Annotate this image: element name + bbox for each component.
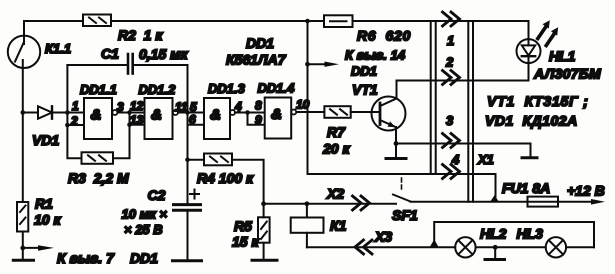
junction triangle +12 bbox=[490, 195, 499, 201]
svg-text:X1: X1 bbox=[477, 152, 494, 167]
svg-text:1: 1 bbox=[72, 99, 79, 113]
node junction top rail bbox=[305, 19, 310, 24]
svg-text:1: 1 bbox=[447, 33, 454, 48]
relay coil K1 bbox=[291, 204, 324, 248]
svg-text:С2: С2 bbox=[148, 187, 166, 203]
svg-text:К1: К1 bbox=[330, 218, 347, 234]
svg-text:R2 1 к: R2 1 к bbox=[118, 27, 163, 43]
wire collector row2 to HL1 bbox=[397, 80, 529, 82]
svg-text:4: 4 bbox=[234, 100, 242, 114]
node DD1.1 input 2 bbox=[65, 123, 70, 128]
svg-text:HL2: HL2 bbox=[480, 226, 507, 242]
wire DD1.2 out to DD1.3 in bbox=[178, 112, 204, 114]
connector X1 right pair bbox=[468, 21, 473, 202]
svg-text:20 к: 20 к bbox=[322, 141, 350, 157]
wire DD1.3 out to DD1.4 in bbox=[235, 112, 265, 114]
svg-text:VD1: VD1 bbox=[32, 132, 59, 148]
node DD1.4 in tie bbox=[245, 110, 250, 115]
svg-text:DD1.4: DD1.4 bbox=[258, 81, 296, 96]
svg-text:12: 12 bbox=[130, 99, 144, 113]
chevron contact row2 bbox=[443, 71, 460, 85]
wire C1 left branch down to gate input bbox=[66, 65, 68, 125]
resistor R1 bbox=[17, 202, 28, 232]
ground R1 bbox=[13, 259, 33, 262]
svg-text:2: 2 bbox=[70, 114, 78, 128]
ground emitter bbox=[386, 144, 406, 159]
node DD1.3 input bbox=[185, 110, 190, 115]
wire R2 to supply rail and R6 bbox=[111, 20, 324, 22]
svg-text:X3: X3 bbox=[374, 229, 392, 245]
svg-text:6: 6 bbox=[189, 113, 196, 127]
wire R1 to ground bbox=[22, 232, 24, 260]
resistor R7 bbox=[324, 106, 350, 118]
svg-text:13: 13 bbox=[130, 113, 144, 127]
svg-text:2: 2 bbox=[445, 55, 454, 70]
LED HL1 bbox=[517, 21, 541, 81]
wire DD1.3 input 6 bbox=[188, 124, 205, 126]
connector X1 left pair bbox=[431, 21, 436, 174]
resistor R6 bbox=[324, 15, 353, 27]
svg-text:DD1.2: DD1.2 bbox=[139, 82, 177, 97]
svg-text:+12 В: +12 В bbox=[567, 183, 605, 199]
svg-text:3: 3 bbox=[446, 113, 454, 128]
svg-text:0,15 мк: 0,15 мк bbox=[139, 46, 188, 62]
ground row3 bbox=[522, 156, 537, 159]
node K1 tap bbox=[305, 201, 310, 206]
wire DD1.4 tie 8 9 bbox=[248, 113, 265, 125]
ground C2 bbox=[173, 259, 202, 262]
svg-text:X2: X2 bbox=[326, 186, 344, 202]
wire SF1 to +12V bbox=[411, 201, 593, 203]
chevron contact row4 bbox=[443, 165, 460, 179]
transistor VT1 bbox=[372, 81, 406, 144]
HL1 emission arrow b bbox=[546, 27, 558, 45]
svg-text:R7: R7 bbox=[327, 124, 346, 140]
chevron X3 left bbox=[355, 240, 372, 254]
diode VD1 bbox=[23, 106, 68, 118]
chevron contact row3 bbox=[443, 134, 460, 148]
wire X2 row bbox=[264, 203, 396, 205]
wire C1 right branch down through node to C2 bbox=[187, 65, 189, 160]
node DD1.1 input 1 bbox=[65, 110, 70, 115]
node R4 R5 X2 bbox=[261, 201, 266, 206]
resistor R2 bbox=[83, 15, 111, 27]
reed switch K1.1 bbox=[8, 21, 40, 113]
node pin14 tap bbox=[305, 62, 310, 67]
svg-text:R5: R5 bbox=[234, 218, 252, 234]
node emitter bbox=[394, 141, 399, 146]
svg-text:VT1 КТ315Г ;: VT1 КТ315Г ; bbox=[487, 93, 589, 109]
svg-text:К выв. 7: К выв. 7 bbox=[57, 250, 115, 266]
svg-text:FU1 8А: FU1 8А bbox=[502, 180, 550, 196]
ground lamps bbox=[485, 247, 505, 259]
svg-text:DD1.1: DD1.1 bbox=[80, 82, 117, 97]
wire between lamps bbox=[476, 246, 546, 248]
lamp loop top wire bbox=[434, 222, 594, 247]
svg-text:10 мк ×: 10 мк × bbox=[122, 207, 168, 222]
wire K1 to lamp bus bbox=[307, 246, 455, 248]
wire DD1.1 out to DD1.2 in bbox=[118, 112, 145, 114]
svg-text:С1: С1 bbox=[101, 46, 119, 62]
arrow to pin 7 bbox=[24, 245, 54, 251]
svg-text:R1: R1 bbox=[35, 196, 53, 212]
svg-text:8: 8 bbox=[255, 99, 262, 113]
svg-text:VD1 КД102А: VD1 КД102А bbox=[485, 113, 578, 129]
svg-text:К1.1: К1.1 bbox=[45, 41, 71, 56]
op gate DD1.2 bbox=[145, 98, 178, 139]
op gate DD1.1 bbox=[84, 98, 117, 139]
op gate DD1.4 bbox=[265, 98, 297, 139]
svg-text:HL3: HL3 bbox=[517, 226, 544, 242]
switch SF1 bbox=[393, 178, 411, 202]
wire HL3 to loop right bbox=[566, 246, 594, 248]
svg-text:&: & bbox=[91, 107, 102, 124]
supply rail vertical and row4 feed bbox=[308, 21, 496, 200]
junction triangle lamp bus bbox=[430, 239, 438, 247]
wire input 2 bbox=[67, 124, 84, 126]
svg-text:R6 620: R6 620 bbox=[357, 28, 411, 44]
wire R6 to HL1 corner bbox=[353, 21, 529, 45]
lamp HL2 bbox=[455, 237, 475, 257]
svg-text:HL1: HL1 bbox=[549, 48, 576, 64]
node VD1 tap bbox=[21, 110, 26, 115]
svg-text:DD1: DD1 bbox=[246, 35, 274, 51]
lamp HL3 bbox=[546, 237, 566, 257]
capacitor C1 bbox=[67, 54, 187, 74]
resistor R5 bbox=[258, 204, 270, 259]
svg-text:15 к: 15 к bbox=[232, 234, 259, 250]
resistor R3 feedback loop bbox=[67, 113, 129, 164]
fuse FU1 bbox=[528, 197, 559, 207]
C2 plus sign bbox=[190, 190, 199, 199]
svg-text:АЛ307БМ: АЛ307БМ bbox=[533, 66, 601, 82]
chevron X2 bbox=[353, 196, 370, 210]
node C2 R4 junction bbox=[185, 157, 190, 162]
arrow to pin 14 bbox=[309, 62, 339, 67]
wire emitter row3 bbox=[396, 144, 531, 157]
wire input 1 bbox=[67, 112, 84, 114]
svg-text:10 к: 10 к bbox=[34, 212, 61, 228]
ground R5 bbox=[252, 259, 277, 262]
resistor R4 bbox=[188, 154, 264, 204]
node DD1.2 in tie top bbox=[127, 110, 132, 115]
svg-text:DD1: DD1 bbox=[130, 250, 158, 266]
svg-text:&: & bbox=[151, 107, 162, 124]
capacitor C2 bbox=[174, 160, 201, 260]
op gate DD1.3 bbox=[204, 98, 235, 139]
svg-text:К выв. 14: К выв. 14 bbox=[345, 48, 406, 63]
node pin7 tap bbox=[20, 246, 25, 251]
chevron contact row1 bbox=[443, 12, 460, 26]
+12V arrow bbox=[591, 199, 605, 205]
wire top rail from K1.1 to R2 bbox=[24, 20, 83, 22]
svg-text:VT1: VT1 bbox=[352, 82, 378, 98]
svg-text:SF1: SF1 bbox=[392, 207, 418, 223]
svg-text:9: 9 bbox=[255, 113, 262, 127]
node DD1.2 in tie bottom bbox=[127, 123, 132, 128]
svg-text:× 25 В: × 25 В bbox=[124, 222, 163, 237]
svg-text:К561ЛА7: К561ЛА7 bbox=[226, 52, 287, 68]
svg-text:DD1: DD1 bbox=[351, 64, 377, 79]
svg-text:R3 2,2 М: R3 2,2 М bbox=[68, 170, 129, 186]
svg-text:&: & bbox=[271, 106, 282, 123]
svg-text:&: & bbox=[210, 107, 221, 124]
wire R7 to base bbox=[351, 111, 380, 113]
wire DD1.2 input 13 bbox=[130, 124, 145, 126]
HL1 emission arrow a bbox=[538, 20, 550, 38]
wire left bus to R1 bbox=[22, 113, 24, 203]
wire DD1.4 out to R7 bbox=[297, 111, 325, 113]
svg-text:DD1.3: DD1.3 bbox=[208, 81, 246, 96]
svg-text:R4 100 к: R4 100 к bbox=[197, 170, 254, 186]
node lamp mid ground bbox=[493, 245, 498, 250]
